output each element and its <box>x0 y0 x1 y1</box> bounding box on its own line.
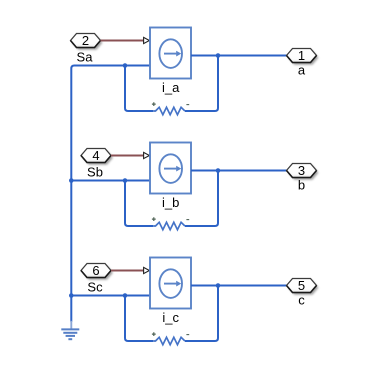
current source ellipse <box>159 154 182 183</box>
junction to snubber branch <box>123 293 128 298</box>
polarity + mark <box>152 217 156 221</box>
input port 4 (Sb) <box>81 148 113 165</box>
polarity + mark <box>152 332 156 336</box>
polarity - mark <box>186 219 189 221</box>
resistor (snubber) of i_b <box>153 222 185 229</box>
wire: neutral bus to block left port <box>71 295 150 297</box>
wire: snubber loop left/bottom/right <box>125 286 218 342</box>
input port 6 (Sc) <box>81 263 113 280</box>
current source ellipse <box>159 269 182 298</box>
controlled current source block i_a <box>150 28 191 79</box>
wire: snubber loop left/bottom/right <box>125 56 218 112</box>
svg-text:2: 2 <box>82 33 89 48</box>
current source ellipse <box>159 39 182 68</box>
svg-text:5: 5 <box>298 278 305 293</box>
wire: block output to port 3 <box>191 170 287 172</box>
svg-text:c: c <box>298 293 305 308</box>
junction output/snubber <box>216 53 221 58</box>
physical signal line Sb to current source <box>111 155 144 157</box>
junction to snubber branch <box>123 63 128 68</box>
physical signal line Sa to current source <box>101 40 144 42</box>
output port 1 (a) <box>287 48 319 65</box>
svg-text:i_b: i_b <box>162 195 179 210</box>
current direction arrow <box>164 168 176 170</box>
resistor (snubber) of i_a <box>153 107 185 114</box>
polarity - mark <box>186 334 189 336</box>
wire: block output to port 1 <box>191 55 287 57</box>
junction on neutral bus <box>69 178 74 183</box>
svg-text:Sc: Sc <box>87 280 103 295</box>
controlled current source block i_c <box>150 258 191 309</box>
open arrowhead into block <box>144 37 150 43</box>
svg-text:4: 4 <box>92 148 99 163</box>
wire: block output to port 5 <box>191 285 287 287</box>
svg-text:6: 6 <box>92 263 99 278</box>
current direction arrow <box>164 53 176 55</box>
junction output/snubber <box>216 168 221 173</box>
resistor (snubber) of i_c <box>153 337 185 344</box>
input port 2 (Sa) <box>71 33 103 50</box>
open arrowhead into block <box>144 267 150 273</box>
current direction arrow <box>164 283 176 285</box>
polarity - mark <box>186 104 189 106</box>
svg-text:i_c: i_c <box>162 310 179 325</box>
svg-text:1: 1 <box>298 48 305 63</box>
junction output/snubber <box>216 283 221 288</box>
ground symbol <box>61 321 79 339</box>
output port 5 (c) <box>287 278 319 295</box>
physical signal line Sc to current source <box>111 270 144 272</box>
wire: snubber loop left/bottom/right <box>125 171 218 227</box>
svg-text:Sa: Sa <box>77 50 94 65</box>
controlled current source block i_b <box>150 143 191 194</box>
neutral bus wire (vertical) <box>70 69 72 322</box>
open arrowhead into block <box>144 152 150 158</box>
wire: neutral bus to block left port <box>71 180 150 182</box>
junction on neutral bus <box>69 293 74 298</box>
svg-text:b: b <box>298 178 305 193</box>
polarity + mark <box>152 102 156 106</box>
junction to snubber branch <box>123 178 128 183</box>
svg-text:3: 3 <box>298 163 305 178</box>
output port 3 (b) <box>287 163 319 180</box>
svg-text:Sb: Sb <box>87 165 103 180</box>
svg-text:i_a: i_a <box>162 80 180 95</box>
wire: neutral bus corner to block left port <box>71 66 150 69</box>
svg-text:a: a <box>298 63 306 78</box>
